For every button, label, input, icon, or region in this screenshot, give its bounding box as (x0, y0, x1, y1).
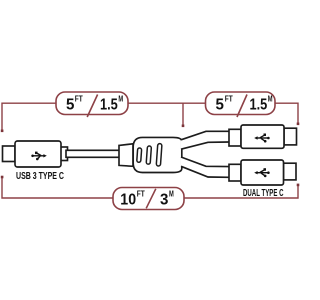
svg-text:M: M (268, 94, 273, 103)
wire: bottom-right segment (184, 185, 298, 198)
node: tick end dots bottom (1, 176, 300, 187)
connector Type-C upper : neck (229, 129, 241, 146)
badge 5FT/1.5M left (56, 92, 128, 117)
node: tick end dots top (1, 123, 300, 133)
connector Type-C lower : body (241, 160, 284, 185)
wire: upper Y cable (181, 131, 229, 149)
svg-text:1.5: 1.5 (250, 97, 268, 114)
wire: right badge to right corner (275, 103, 299, 124)
dimension bracket bottom 10FT segment (2, 177, 298, 198)
wire: top-left horizontal dimension line (2, 103, 56, 131)
connector Type-C upper : tip (284, 128, 297, 145)
wire: lower Y cable (181, 157, 229, 177)
splitter slot 3 (156, 143, 162, 166)
icon: USB trident lower connector (254, 168, 270, 177)
svg-text:FT: FT (137, 189, 145, 198)
svg-text:10: 10 (120, 191, 136, 208)
svg-text:DUAL TYPE C: DUAL TYPE C (243, 188, 284, 199)
connector Type-C lower : neck (229, 164, 241, 181)
svg-text:FT: FT (75, 94, 83, 103)
badge 10FT/3M bottom (113, 188, 184, 210)
splitter slot 2 (146, 146, 151, 164)
wire: line from left badge to middle tick (128, 102, 206, 104)
connector USB3 Type-C left : tip (3, 146, 16, 162)
wire: middle tick (182, 103, 184, 126)
wire: bottom-left corner (2, 177, 113, 198)
connector Type-C upper : body (241, 125, 284, 148)
connector Type-C lower : tip (284, 163, 297, 180)
svg-text:1.5: 1.5 (100, 97, 118, 114)
svg-text:FT: FT (225, 94, 233, 103)
splitter body (133, 137, 182, 172)
svg-text:5: 5 (66, 97, 74, 114)
connector USB3 Type-C left : neck (59, 147, 68, 161)
badge 5FT/1.5M right (206, 92, 276, 117)
svg-text:3: 3 (160, 191, 168, 208)
icon: USB trident upper connector (254, 134, 270, 143)
svg-text:USB 3 TYPE C: USB 3 TYPE C (16, 171, 64, 182)
splitter collar (119, 144, 133, 167)
svg-text:5: 5 (216, 97, 224, 114)
icon: USB trident left connector (31, 152, 47, 161)
dimension bracket left 5FT segment (2, 103, 298, 131)
splitter slot 1 (137, 148, 142, 163)
svg-text:M: M (169, 189, 174, 198)
wire: main cable (66, 150, 121, 157)
connector USB3 Type-C left : body (15, 141, 61, 167)
svg-text:M: M (118, 94, 123, 103)
